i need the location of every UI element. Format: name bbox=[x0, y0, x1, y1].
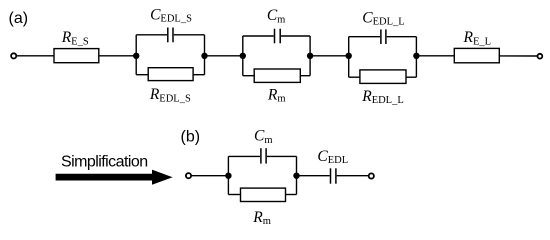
wire (right vertical of parallel 3) bbox=[415, 37, 417, 77]
node D (junction dot) bbox=[307, 53, 313, 59]
wire (bottom branch right) bbox=[300, 75, 310, 77]
wire (top branch right) bbox=[267, 155, 297, 157]
terminal left (a) bbox=[11, 53, 16, 58]
resistor R_m bbox=[254, 69, 300, 82]
wire (left vertical of parallel 1) bbox=[135, 35, 137, 75]
resistor R_EDL_S bbox=[148, 68, 193, 81]
wire (bottom branch left) bbox=[349, 76, 360, 78]
svg-text:Simplification: Simplification bbox=[61, 153, 148, 170]
wire (right vertical of parallel b) bbox=[296, 156, 298, 194]
capacitor C_EDL bbox=[331, 168, 336, 183]
wire (bottom branch left) bbox=[136, 74, 148, 76]
resistor R_E_L bbox=[454, 48, 499, 62]
wire bbox=[297, 175, 330, 177]
wire (top branch right) bbox=[281, 35, 310, 37]
svg-text:RE_S: RE_S bbox=[61, 29, 89, 47]
capacitor C_m bbox=[275, 29, 281, 44]
wire bbox=[205, 55, 243, 57]
svg-text:Rm: Rm bbox=[267, 86, 286, 104]
terminal left (b) bbox=[186, 173, 191, 178]
wire bbox=[17, 55, 54, 57]
svg-text:(b): (b) bbox=[181, 129, 201, 146]
wire bbox=[310, 55, 349, 57]
capacitor C_m (b) bbox=[261, 148, 266, 163]
wire (bottom branch left) bbox=[243, 75, 254, 77]
node A (junction dot) bbox=[133, 53, 139, 59]
wire (bottom branch right) bbox=[193, 74, 204, 76]
wire (top branch left) bbox=[243, 35, 274, 37]
wire (bottom branch right) bbox=[406, 76, 416, 78]
wire bbox=[499, 55, 537, 57]
wire (top branch right) bbox=[387, 36, 417, 38]
terminal right (a) bbox=[538, 54, 543, 59]
svg-text:RE_L: RE_L bbox=[463, 29, 492, 47]
resistor R_EDL_L bbox=[360, 70, 406, 84]
svg-text:CEDL: CEDL bbox=[317, 148, 348, 166]
svg-text:(a): (a) bbox=[9, 10, 29, 27]
svg-text:CEDL_L: CEDL_L bbox=[362, 9, 404, 27]
node C (junction dot) bbox=[240, 53, 246, 59]
resistor R_m (b) bbox=[241, 188, 286, 201]
wire bbox=[191, 175, 229, 177]
node B (junction dot) bbox=[201, 53, 207, 59]
wire (top branch left) bbox=[349, 36, 380, 38]
wire (left vertical of parallel 2) bbox=[242, 36, 244, 76]
wire bbox=[99, 55, 136, 57]
wire (top branch right) bbox=[174, 34, 205, 36]
node H (junction dot) bbox=[293, 173, 299, 179]
node F (junction dot) bbox=[413, 53, 419, 59]
wire (left vertical of parallel b) bbox=[227, 156, 229, 194]
wire (right vertical of parallel 1) bbox=[204, 35, 206, 75]
svg-text:Cm: Cm bbox=[254, 128, 273, 146]
wire (bottom branch left) bbox=[228, 194, 240, 196]
svg-text:REDL_S: REDL_S bbox=[149, 86, 191, 104]
capacitor C_EDL_S bbox=[168, 28, 173, 43]
wire (right vertical of parallel 2) bbox=[309, 36, 311, 76]
wire (bottom branch right) bbox=[286, 194, 297, 196]
wire (top branch left) bbox=[136, 34, 167, 36]
wire (left vertical of parallel 3) bbox=[348, 37, 350, 77]
svg-text:Cm: Cm bbox=[267, 7, 286, 25]
svg-text:CEDL_S: CEDL_S bbox=[150, 6, 192, 24]
terminal right (b) bbox=[369, 173, 374, 178]
svg-text:REDL_L: REDL_L bbox=[361, 88, 404, 106]
node E (junction dot) bbox=[346, 53, 352, 59]
arrow (simplification) bbox=[56, 170, 173, 185]
wire (top branch left) bbox=[228, 155, 260, 157]
resistor R_E_S bbox=[54, 49, 99, 63]
node G (junction dot) bbox=[225, 173, 231, 179]
wire bbox=[416, 55, 454, 57]
wire bbox=[337, 175, 369, 177]
capacitor C_EDL_L bbox=[381, 29, 386, 44]
svg-text:Rm: Rm bbox=[252, 209, 271, 227]
